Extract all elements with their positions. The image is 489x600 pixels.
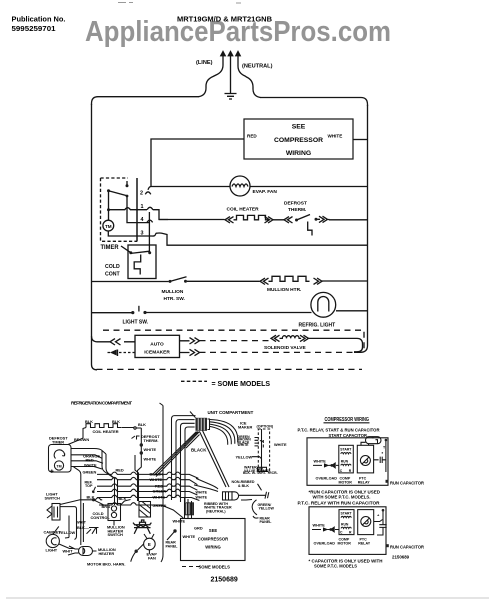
svg-text:EVAP. FAN: EVAP. FAN <box>253 189 278 195</box>
plug prong LINE <box>221 52 225 61</box>
connector arrows coil heater right <box>265 217 274 223</box>
wire: black cable to compressor <box>200 431 230 488</box>
timer assembly dashed box <box>101 178 138 241</box>
defrost timer cam <box>54 450 65 459</box>
wire: cabinet light leads <box>53 526 75 548</box>
svg-text:TM: TM <box>56 464 61 468</box>
defrost timer pins <box>71 449 74 467</box>
wire: power cord <box>239 492 269 499</box>
wire: right rail neutral <box>354 105 368 352</box>
plug prong middle (ground pin) <box>228 52 232 61</box>
svg-text:START: START <box>341 512 353 516</box>
svg-text:(NEUTRAL): (NEUTRAL) <box>206 509 226 513</box>
svg-text:* CAPACITOR IS ONLY USED WITH: * CAPACITOR IS ONLY USED WITH <box>309 558 383 563</box>
svg-text:WHITE: WHITE <box>238 443 250 447</box>
wire: terminal 2 bump to compressor node <box>145 187 151 195</box>
wire: brown timer to coil heater <box>68 428 86 445</box>
connector: hatch block center <box>139 502 151 518</box>
ground brace <box>252 500 257 515</box>
wire: mullion heater leads <box>68 546 97 555</box>
wire: coil heater defrost line <box>159 219 368 221</box>
wire: dashed input to icemaker <box>119 352 135 354</box>
terminal 1 contact bump <box>147 207 153 209</box>
svg-text:COLD: COLD <box>105 264 120 270</box>
wire: yellow drop <box>68 516 70 538</box>
PTC relay disc (box2) <box>361 517 371 527</box>
svg-text:+: + <box>377 513 380 518</box>
wire: timer harness green <box>74 467 103 470</box>
svg-text:PANEL: PANEL <box>260 520 273 524</box>
svg-text:BLACK: BLACK <box>150 472 164 477</box>
svg-text:REFRIG. LIGHT: REFRIG. LIGHT <box>299 323 336 329</box>
wire: icemaker feed stubs <box>255 438 259 446</box>
wire: black cable diagonals <box>153 432 200 477</box>
svg-text:WHIT: WHIT <box>63 549 74 554</box>
svg-text:TM: TM <box>105 224 112 229</box>
evap fan motor symbol <box>230 176 250 196</box>
svg-text:WHITE: WHITE <box>84 462 97 467</box>
svg-text:OVERLOAD: OVERLOAD <box>316 477 338 481</box>
svg-text:2150689: 2150689 <box>392 555 410 560</box>
plug prong NEUTRAL <box>236 52 240 61</box>
connector arrows solenoid left <box>271 335 280 341</box>
svg-text:YELLOW: YELLOW <box>236 454 253 459</box>
compressor motor windings box 2 <box>339 510 354 535</box>
wire: timer harness red <box>74 455 103 459</box>
svg-text:5995259701: 5995259701 <box>12 26 56 33</box>
timer contact node C <box>126 195 129 198</box>
defrost therm clip symbol <box>132 436 140 440</box>
wire: light switch loop <box>60 507 76 540</box>
svg-text:WHITE: WHITE <box>150 477 163 482</box>
svg-text:(NEUTRAL): (NEUTRAL) <box>242 64 273 70</box>
svg-text:CONTROL: CONTROL <box>91 515 111 520</box>
svg-text:WHITE: WHITE <box>328 134 343 139</box>
icemaker dashed outline <box>258 429 269 471</box>
svg-text:2150689: 2150689 <box>211 577 238 584</box>
junction dot BLK <box>92 498 95 501</box>
wire: node C to terminal 4 link <box>127 196 149 223</box>
svg-text:SOME P.T.C. MODELS: SOME P.T.C. MODELS <box>314 564 357 569</box>
icemaker inner contacts <box>260 440 263 448</box>
svg-text:SOLENOID VALVE: SOLENOID VALVE <box>264 345 306 351</box>
wire: compressor feed from timer terminal 2 <box>151 139 244 187</box>
wire: light line <box>92 311 368 313</box>
resistor: coil heater (pictorial) <box>86 424 122 428</box>
timer cam line <box>136 178 138 242</box>
svg-text:R: R <box>349 530 352 534</box>
svg-text:RUN CAPACITOR: RUN CAPACITOR <box>390 545 424 550</box>
wire: cold control left dot diagonal <box>121 246 131 253</box>
wire: bus rows to power cord plug <box>194 478 218 491</box>
svg-text:THERM.: THERM. <box>144 438 159 443</box>
svg-text:BLK: BLK <box>112 419 120 424</box>
defrost timer motor TM <box>54 461 63 470</box>
svg-text:= SOME MODELS: = SOME MODELS <box>212 381 271 388</box>
PTC relay box 1 <box>357 445 373 473</box>
svg-text:BLK: BLK <box>85 419 93 424</box>
svg-text:R: R <box>349 469 352 473</box>
svg-text:WHITE: WHITE <box>274 442 287 447</box>
svg-text:SEE: SEE <box>292 124 306 131</box>
coil: run winding (box2) <box>341 527 351 528</box>
scan artifact marks top edge <box>118 2 241 5</box>
ground symbol <box>225 94 237 100</box>
defrost thermostat contacts <box>295 219 298 222</box>
wire: defrost therm white drop <box>138 428 142 501</box>
terminal 4 contact bump <box>147 220 153 222</box>
scan artifact bottom edge line <box>6 597 489 599</box>
svg-text:HEATER: HEATER <box>99 551 115 556</box>
junction dot evap <box>135 550 138 553</box>
water valve connector <box>257 467 267 471</box>
svg-text:MOTOR BKD. HARN.: MOTOR BKD. HARN. <box>87 562 125 567</box>
PTC relay box 2 <box>358 510 374 535</box>
wire: defrost to rail with arrows <box>318 216 330 222</box>
svg-text:GREEN: GREEN <box>153 503 167 508</box>
svg-text:REFRIGERATION COMPARTMENT: REFRIGERATION COMPARTMENT <box>71 401 132 406</box>
svg-text:WIRING: WIRING <box>205 545 221 550</box>
svg-text:RED: RED <box>116 468 124 473</box>
pointer: non-ribbed to cord <box>258 484 262 491</box>
dashed some-models enclosure <box>97 330 365 369</box>
svg-text:START: START <box>340 448 352 452</box>
connector ring coil heater end <box>134 427 136 429</box>
timer mount tab <box>50 470 53 473</box>
solenoid valve coil <box>280 336 302 339</box>
svg-text:E: E <box>148 542 151 547</box>
mullion heater switch contacts <box>169 280 172 283</box>
svg-text:ICEMAKER: ICEMAKER <box>144 350 170 356</box>
wire: rear panel diagonal <box>167 531 175 540</box>
svg-text:C: C <box>340 530 343 534</box>
wire: start capacitor leads (box1) <box>361 440 378 446</box>
svg-text:COMPRESSOR: COMPRESSOR <box>274 137 323 144</box>
svg-text:TOP: TOP <box>85 484 93 488</box>
svg-text:& BLK: & BLK <box>238 484 249 488</box>
evap fan motor pictorial <box>144 538 156 550</box>
svg-text:COIL HEATER: COIL HEATER <box>93 429 119 434</box>
wire: dashed icemaker to solenoid <box>200 340 272 342</box>
wire: mullion heater line <box>92 280 368 283</box>
junction dot harness <box>173 529 176 532</box>
cold control contact right <box>148 251 151 254</box>
svg-text:UNIT COMPARTMENT: UNIT COMPARTMENT <box>208 410 254 415</box>
svg-text:(OPTION): (OPTION) <box>257 425 274 429</box>
wire: green drop from timer <box>74 467 81 474</box>
icemaker output arrows <box>180 338 200 356</box>
wire: harness bundle elbows to connector <box>172 416 196 502</box>
svg-text:C: C <box>340 469 343 473</box>
icemaker box <box>135 335 180 357</box>
svg-text:RUN CAPACITOR: RUN CAPACITOR <box>390 480 424 485</box>
svg-text:HTR. SW.: HTR. SW. <box>164 296 185 302</box>
svg-text:WHITE: WHITE <box>314 460 327 464</box>
legend dashes pictorial <box>182 566 200 568</box>
wire: bus row WHITE2 <box>97 495 199 500</box>
cold control capillary <box>134 255 141 275</box>
svg-text:GREEN: GREEN <box>153 489 167 494</box>
wire: bus row GREEN lower <box>99 503 183 518</box>
svg-text:RUN: RUN <box>341 522 349 526</box>
wire: rail to icemaker with connector arrows <box>92 336 136 345</box>
wire: compressor box to right rail <box>353 139 368 141</box>
wire: node D to terminal 1 with hop <box>109 208 148 210</box>
wire: icemaker harness curves <box>210 420 238 445</box>
refrigerator light lamp <box>311 292 336 317</box>
compressor reference box <box>244 119 353 159</box>
wire: bus row GREEN <box>97 489 197 495</box>
power cord plug <box>223 492 233 500</box>
timer switch arm A-C <box>109 191 128 196</box>
svg-text:TIMER: TIMER <box>101 245 120 251</box>
start capacitor component (box1) <box>366 437 382 444</box>
wire: bus row WHITE <box>97 477 197 484</box>
svg-text:LIGHT: LIGHT <box>46 548 58 553</box>
wire: terminal 1 to coil heater line <box>153 210 168 220</box>
svg-text:YELLOW: YELLOW <box>259 507 275 511</box>
svg-text:*: * <box>382 451 384 456</box>
wire: evap fan leads <box>131 534 154 562</box>
resistor: mullion heater element <box>269 276 310 281</box>
wire: timer harness white <box>74 461 104 464</box>
mullion heater switch arm <box>170 277 187 282</box>
svg-text:RUN: RUN <box>341 459 349 463</box>
connector arrows solenoid right <box>300 335 309 341</box>
svg-text:SEE: SEE <box>209 528 218 533</box>
compressor wiring reference box (pictorial) <box>181 519 246 561</box>
svg-text:WHITE: WHITE <box>153 495 166 500</box>
cold control pictorial box <box>108 504 121 521</box>
svg-text:P.T.C. RELAY, START & RUN CAPA: P.T.C. RELAY, START & RUN CAPACITOR <box>298 427 380 432</box>
run capacitor plates (box1) <box>380 457 382 463</box>
svg-text:BLK: BLK <box>138 422 146 427</box>
overload device (box1) <box>330 464 333 467</box>
svg-text:WHITE: WHITE <box>173 519 186 524</box>
compressor box 1 <box>307 438 388 486</box>
connector arrows mullion left <box>260 278 269 284</box>
coil: start winding (box1) <box>341 453 351 454</box>
svg-text:BLK—: BLK— <box>77 525 89 530</box>
svg-text:CABINET: CABINET <box>44 530 62 535</box>
cold control contact left <box>129 251 132 254</box>
svg-text:PANEL: PANEL <box>166 544 179 548</box>
wire: node A down to TM motor <box>108 192 110 220</box>
svg-text:BLK. W. -WHT. TRCR-: BLK. W. -WHT. TRCR- <box>243 471 278 475</box>
svg-text:2: 2 <box>140 191 143 197</box>
svg-text:MRT19GM/D & MRT21GNB: MRT19GM/D & MRT21GNB <box>177 16 272 23</box>
timer contact node A <box>107 189 110 192</box>
light switch plunger <box>138 306 140 312</box>
svg-text:SOME MODELS: SOME MODELS <box>199 565 231 570</box>
svg-text:(LINE): (LINE) <box>196 60 213 66</box>
PTC relay disc (box1) <box>360 456 370 466</box>
wire: yellow lead <box>252 457 262 463</box>
svg-text:SWITCH: SWITCH <box>45 495 61 500</box>
legend dashed sample <box>181 380 207 382</box>
wire: solenoid to right rail bottom <box>309 338 363 351</box>
svg-text:RED: RED <box>155 483 163 488</box>
svg-text:CONT: CONT <box>105 272 121 278</box>
evap fan bracket <box>133 520 151 534</box>
svg-text:DEFROST: DEFROST <box>284 201 307 207</box>
wire: coil heater to defrost drop <box>122 427 141 430</box>
wire: bus row RED <box>97 484 197 490</box>
svg-text:P.T.C. RELAY WITH RUN CAPACITO: P.T.C. RELAY WITH RUN CAPACITOR <box>298 501 380 506</box>
svg-text:LIGHT SW.: LIGHT SW. <box>123 320 149 326</box>
wire: left rail L1 <box>92 104 98 370</box>
svg-text:RELAY: RELAY <box>358 541 370 545</box>
wire: evap fan run y=186 <box>151 186 368 188</box>
timer motor feed node D <box>107 208 110 211</box>
wire: terminal 4 to cold control <box>148 222 150 252</box>
wire: white feed with arrow (box1) <box>313 464 331 467</box>
wire: TM motor to terminal 3 <box>108 231 152 236</box>
wire: left vertical pair <box>81 474 84 546</box>
wire: long harness vertical <box>160 403 164 562</box>
timer contact node B <box>126 184 129 187</box>
wire: icemaker inner vertical <box>261 429 263 471</box>
svg-text:FAN: FAN <box>148 556 156 561</box>
wire: top rail left <box>92 97 199 105</box>
wire: defrost therm drop pair <box>135 455 139 501</box>
svg-text:Publication No.: Publication No. <box>12 17 66 24</box>
wire: dashed icemaker lower output <box>200 351 355 353</box>
compressor motor windings box 1 <box>339 445 354 473</box>
wire: bus row BLACK <box>97 472 198 478</box>
wire: neutral prong to top-right rail <box>238 60 261 98</box>
light switch contacts <box>131 311 134 314</box>
svg-text:GRD: GRD <box>194 526 203 531</box>
wire: top rail right <box>261 98 368 107</box>
run capacitor component (box2) <box>374 511 387 535</box>
coil: start winding (box2) <box>341 516 351 517</box>
svg-text:MOTOR: MOTOR <box>339 480 353 484</box>
wire: timer drop verticals <box>102 451 118 505</box>
dot: defrost therm splice A <box>140 443 143 446</box>
wire: ground pin down <box>230 60 232 93</box>
wire: cold control leads <box>94 500 131 526</box>
svg-text:YELLOW: YELLOW <box>59 530 76 535</box>
unit compartment connector block <box>196 418 208 431</box>
svg-text:COMPRESSOR: COMPRESSOR <box>198 537 228 542</box>
svg-text:WHITE: WHITE <box>144 456 157 461</box>
svg-text:COIL HEATER: COIL HEATER <box>227 207 260 213</box>
svg-text:WHITE: WHITE <box>313 524 326 528</box>
wire: timer harness orange <box>74 449 107 455</box>
defrost thermostat bimetal step <box>308 222 312 236</box>
svg-text:WHITE: WHITE <box>196 491 208 495</box>
wire: rear panel pointer <box>253 516 259 518</box>
connector: compressor harness block <box>184 502 194 515</box>
wire: terminal 3 to right rail <box>156 233 368 245</box>
wire: neutral cord lower <box>241 499 252 502</box>
svg-text:WHITE: WHITE <box>196 495 208 499</box>
svg-text:RELAY: RELAY <box>358 480 370 484</box>
connector arrows coil heater left <box>225 217 234 223</box>
icemaker water-fill input symbol <box>108 350 118 357</box>
svg-text:MAKER: MAKER <box>238 425 252 430</box>
overload device (box2) <box>329 528 332 531</box>
svg-text:OVERLOAD: OVERLOAD <box>314 542 336 546</box>
light switch pictorial body <box>52 504 60 521</box>
svg-text:AUTO: AUTO <box>150 342 164 348</box>
mullion heater element pictorial <box>79 547 93 556</box>
svg-text:THERM.: THERM. <box>288 207 306 213</box>
wire: white feed with arrow (box2) <box>312 528 330 531</box>
svg-text:WHITE: WHITE <box>144 447 157 452</box>
svg-text:MOTOR: MOTOR <box>338 541 352 545</box>
cabinet light bulb <box>46 534 59 547</box>
wire: connector top diagonal <box>190 412 196 419</box>
svg-text:SWITCH: SWITCH <box>108 532 124 537</box>
svg-text:BLACK: BLACK <box>191 448 207 453</box>
cold control box <box>128 245 156 279</box>
wire: light switch to BLK junction <box>60 498 102 505</box>
coil: run winding (box1) <box>341 464 351 465</box>
connector arrow defrost left <box>284 217 293 223</box>
svg-text:TIMER: TIMER <box>52 439 64 444</box>
connector arrows mullion right <box>314 278 323 284</box>
timer motor TM <box>103 220 114 231</box>
dot: defrost therm splice B <box>140 451 143 454</box>
terminal 3 contact bump <box>152 233 156 236</box>
svg-text:WHITE: WHITE <box>183 534 196 539</box>
wire: line prong to top-left rail <box>198 60 223 97</box>
wire: run capacitor tap (box1) <box>374 440 386 472</box>
junction dot (box1 top right) <box>385 439 388 442</box>
svg-text:MULLION: MULLION <box>162 289 184 295</box>
svg-text:WITH SOME P.T.C. MODELS.: WITH SOME P.T.C. MODELS. <box>313 495 371 500</box>
svg-text:GREEN: GREEN <box>83 470 97 475</box>
mullion heater switch symbol <box>87 528 99 534</box>
svg-text:RED: RED <box>247 134 257 139</box>
svg-text:WIRING: WIRING <box>286 150 311 157</box>
wire: leads into compressor box <box>185 497 192 519</box>
pointer arrow to BLK junction <box>92 487 95 493</box>
cold control switch arm <box>131 251 150 253</box>
compressor box 2 <box>309 507 386 555</box>
svg-text:MULLION HTR.: MULLION HTR. <box>267 287 301 293</box>
svg-text:COMPRESSOR WIRING: COMPRESSOR WIRING <box>325 417 370 423</box>
defrost timer body <box>49 445 72 473</box>
resistor: coil heater element <box>234 215 270 219</box>
